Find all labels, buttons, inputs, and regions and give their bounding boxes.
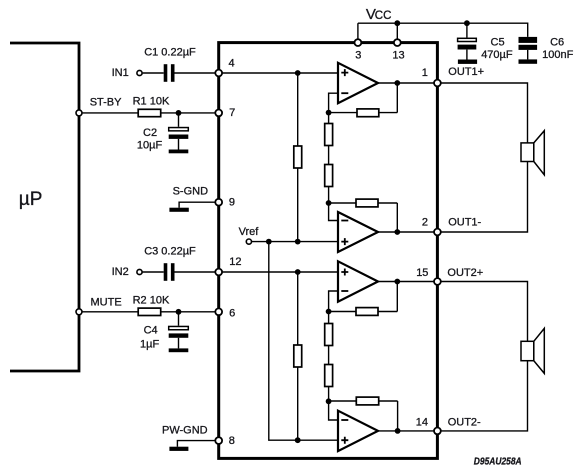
svg-text:14: 14 <box>416 416 428 428</box>
svg-text:S-GND: S-GND <box>173 186 209 198</box>
svg-text:10µF: 10µF <box>137 140 163 152</box>
svg-text:OUT1-: OUT1- <box>448 217 481 229</box>
svg-text:µP: µP <box>19 189 43 210</box>
svg-text:PW-GND: PW-GND <box>162 425 208 437</box>
svg-text:MUTE: MUTE <box>91 296 122 308</box>
svg-text:R2 10K: R2 10K <box>133 295 170 307</box>
svg-text:C3 0.22µF: C3 0.22µF <box>144 246 196 258</box>
svg-text:R1 10K: R1 10K <box>133 96 170 108</box>
svg-text:15: 15 <box>416 267 428 279</box>
svg-text:13: 13 <box>392 49 404 61</box>
svg-text:C6: C6 <box>550 37 564 49</box>
svg-text:C2: C2 <box>143 127 157 139</box>
svg-text:IN2: IN2 <box>112 266 129 278</box>
svg-text:4: 4 <box>229 57 235 69</box>
svg-text:12: 12 <box>229 256 241 268</box>
svg-text:100nF: 100nF <box>542 49 573 61</box>
svg-text:OUT2-: OUT2- <box>448 416 481 428</box>
svg-text:470µF: 470µF <box>481 49 513 61</box>
svg-text:D95AU258A: D95AU258A <box>474 456 522 468</box>
svg-text:C5: C5 <box>491 37 505 49</box>
svg-text:Vref: Vref <box>239 226 260 238</box>
svg-text:1: 1 <box>422 67 428 79</box>
svg-text:2: 2 <box>422 217 428 229</box>
svg-text:OUT2+: OUT2+ <box>447 267 483 279</box>
svg-text:C4: C4 <box>144 325 158 337</box>
svg-text:IN1: IN1 <box>112 67 129 79</box>
svg-text:9: 9 <box>229 197 235 209</box>
svg-text:6: 6 <box>229 307 235 319</box>
svg-text:ST-BY: ST-BY <box>90 97 122 109</box>
svg-text:8: 8 <box>229 435 235 447</box>
svg-text:3: 3 <box>355 49 361 61</box>
svg-text:OUT1+: OUT1+ <box>448 66 484 78</box>
svg-text:CC: CC <box>375 10 392 22</box>
svg-text:C1 0.22µF: C1 0.22µF <box>144 47 196 59</box>
svg-text:7: 7 <box>229 107 235 119</box>
svg-text:1µF: 1µF <box>140 339 159 351</box>
